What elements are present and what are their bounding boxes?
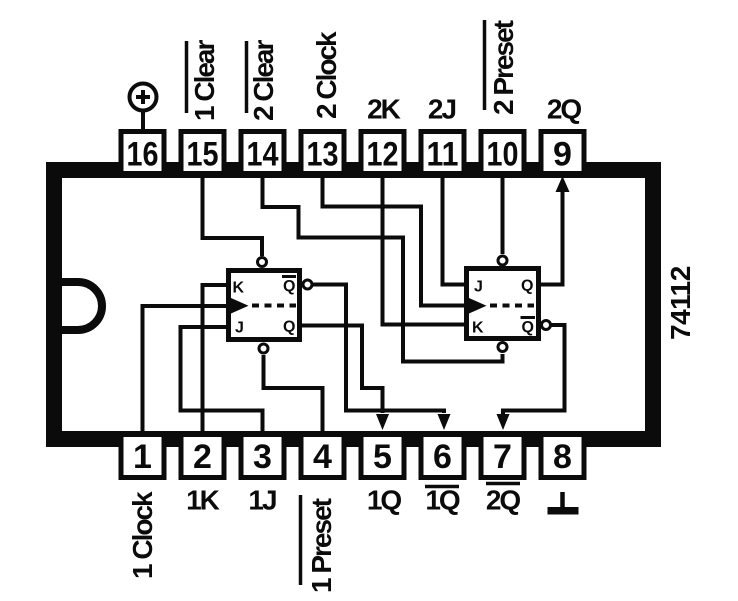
svg-text:1Q: 1Q — [425, 485, 460, 516]
svg-text:K: K — [233, 280, 245, 297]
svg-text:8: 8 — [553, 438, 572, 476]
svg-text:2Q: 2Q — [486, 485, 521, 516]
svg-text:6: 6 — [433, 438, 452, 476]
svg-text:9: 9 — [553, 136, 572, 174]
svg-text:2 Clear: 2 Clear — [248, 40, 279, 121]
svg-text:Q: Q — [521, 278, 533, 295]
svg-text:2: 2 — [193, 438, 212, 476]
svg-text:1J: 1J — [248, 485, 276, 516]
svg-text:2Q: 2Q — [547, 94, 582, 125]
svg-text:15: 15 — [187, 136, 219, 174]
svg-text:4: 4 — [313, 438, 332, 476]
svg-text:12: 12 — [367, 136, 399, 174]
svg-text:10: 10 — [487, 136, 519, 174]
svg-text:13: 13 — [307, 136, 339, 174]
svg-text:2K: 2K — [367, 94, 401, 125]
svg-text:1Q: 1Q — [367, 485, 402, 516]
svg-text:11: 11 — [427, 136, 459, 174]
svg-text:Q: Q — [522, 319, 534, 336]
svg-text:1 Preset: 1 Preset — [306, 498, 337, 593]
svg-text:16: 16 — [127, 136, 159, 174]
svg-text:3: 3 — [253, 438, 272, 476]
svg-text:14: 14 — [247, 136, 279, 174]
svg-text:J: J — [235, 320, 244, 337]
svg-text:1: 1 — [133, 438, 152, 476]
svg-text:1 Clock: 1 Clock — [127, 491, 158, 579]
svg-text:Q: Q — [283, 278, 295, 295]
svg-text:1 Clear: 1 Clear — [189, 40, 220, 121]
svg-text:1K: 1K — [186, 485, 220, 516]
svg-text:74112: 74112 — [665, 266, 696, 340]
svg-text:2J: 2J — [428, 94, 456, 125]
svg-text:7: 7 — [493, 438, 512, 476]
svg-text:Q: Q — [283, 319, 295, 336]
svg-text:J: J — [474, 279, 483, 296]
svg-text:2 Preset: 2 Preset — [488, 20, 519, 115]
svg-text:2 Clock: 2 Clock — [311, 31, 342, 119]
svg-text:5: 5 — [373, 438, 392, 476]
svg-text:K: K — [472, 320, 484, 337]
